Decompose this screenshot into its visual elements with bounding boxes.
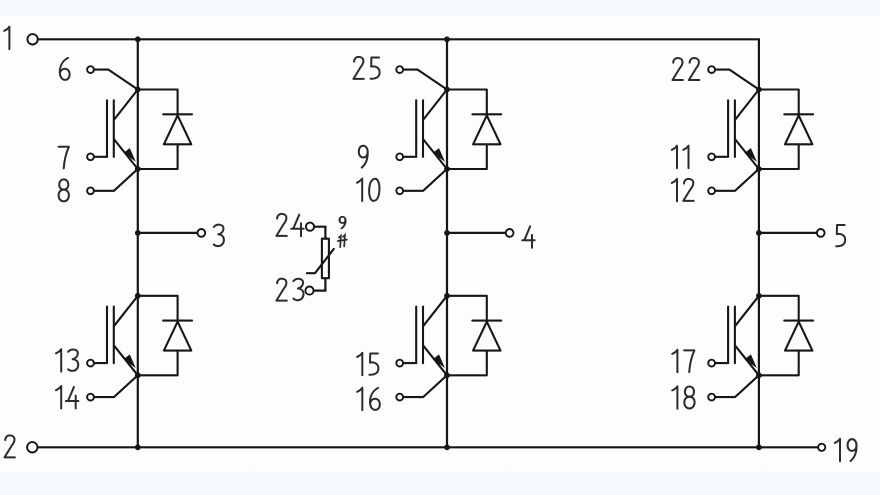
wire phase U column: [137, 39, 139, 447]
junction top rail / phase U: [135, 36, 141, 42]
pin label 17: [672, 350, 694, 372]
pin 17 (gate): [708, 360, 728, 367]
junction collector T6: [756, 293, 762, 299]
wire AC output W: [759, 232, 817, 234]
wire DC+ top rail: [38, 38, 759, 40]
pin 22 (collector aux): [708, 66, 758, 89]
terminal 19 (DC- aux): [818, 444, 825, 451]
pin 9 (gate): [396, 153, 416, 160]
transistor T1 (IGBT): [107, 90, 138, 170]
terminal label 1: [4, 27, 9, 49]
wire AC output V: [447, 232, 506, 234]
pin label 9: [359, 146, 368, 168]
pin 14 (emitter aux): [87, 376, 137, 401]
pin label 15: [357, 353, 378, 375]
terminal 4 (AC out V): [506, 229, 514, 237]
diode D2 (freewheeling): [138, 296, 192, 376]
junction collector T5: [756, 87, 762, 93]
pin 10 (emitter aux): [396, 169, 446, 194]
diode D6 (freewheeling): [759, 296, 813, 376]
pin label 14: [56, 386, 78, 408]
junction emitter T3: [444, 166, 450, 172]
junction bottom rail / phase V: [444, 444, 450, 450]
pin 13 (gate): [87, 360, 107, 367]
pin label 22: [673, 58, 700, 80]
thermistor R1 (NTC) body: [307, 239, 334, 279]
pin label 7: [59, 147, 69, 169]
wire phase W column: [758, 39, 760, 447]
junction emitter T4: [444, 372, 450, 378]
pin label 18: [672, 386, 694, 408]
pin label 13: [56, 349, 78, 371]
terminal label 5: [836, 225, 845, 246]
pin 23 (thermistor): [305, 287, 313, 295]
pin label 12: [672, 179, 694, 201]
terminal label 19: [835, 439, 857, 461]
wire DC- bottom rail: [38, 446, 818, 448]
junction collector T4: [444, 293, 450, 299]
pin 12 (emitter aux): [708, 169, 758, 194]
pin 7 (gate): [87, 153, 107, 160]
pin 18 (emitter aux): [708, 376, 758, 401]
junction output W: [756, 230, 762, 236]
diode D4 (freewheeling): [447, 296, 501, 376]
pin label 24: [276, 214, 303, 236]
junction emitter T1: [135, 166, 141, 172]
transistor T2 (IGBT): [107, 296, 138, 376]
terminal label 3: [214, 225, 224, 246]
junction output U: [135, 230, 141, 236]
terminal 1 (DC+): [27, 34, 37, 44]
pin label 23: [276, 279, 303, 301]
pin label 6: [60, 58, 70, 80]
terminal label 2: [5, 435, 15, 457]
pin label 11: [672, 146, 689, 168]
junction output V: [444, 230, 450, 236]
junction top rail / phase V: [444, 36, 450, 42]
transistor T5 (IGBT): [728, 90, 759, 170]
pin 15 (gate): [396, 360, 416, 367]
pin label 25: [353, 57, 379, 79]
pin label 8: [59, 179, 69, 201]
junction emitter T6: [756, 372, 762, 378]
junction collector T2: [135, 293, 141, 299]
pin 11 (gate): [708, 153, 728, 160]
terminal 2 (DC-): [27, 442, 37, 452]
diode D1 (freewheeling): [138, 90, 192, 170]
value label theta (temperature symbol): [340, 217, 346, 229]
pin 8 (emitter aux): [87, 169, 137, 194]
junction collector T3: [444, 87, 450, 93]
junction collector T1: [135, 87, 141, 93]
pin 6 (collector aux): [87, 66, 137, 89]
wire phase V column: [446, 39, 448, 447]
transistor T4 (IGBT): [416, 296, 447, 376]
diode D5 (freewheeling): [759, 90, 813, 170]
diode D3 (freewheeling): [447, 90, 501, 170]
transistor T6 (IGBT): [728, 296, 759, 376]
pin 24 (thermistor): [306, 223, 314, 231]
junction emitter T5: [756, 166, 762, 172]
pin 25 (collector aux): [396, 66, 446, 89]
terminal 3 (AC out U): [197, 229, 205, 237]
terminal label 4: [522, 226, 535, 248]
pin label 10: [357, 179, 379, 201]
wire AC output U: [138, 232, 198, 234]
junction emitter T2: [135, 372, 141, 378]
junction bottom rail / phase U: [135, 444, 141, 450]
pin 16 (emitter aux): [396, 376, 446, 401]
junction bottom rail / phase W: [756, 444, 762, 450]
terminal 5 (AC out W): [817, 229, 825, 237]
pin label 16: [357, 388, 380, 410]
value label NTC tick marks: [338, 235, 347, 247]
transistor T3 (IGBT): [416, 90, 447, 170]
